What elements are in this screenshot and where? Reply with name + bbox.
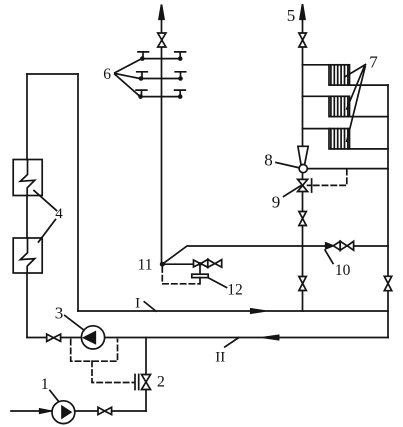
svg-text:II: II — [215, 349, 225, 365]
branch 2 left dot — [139, 76, 144, 81]
svg-text:8: 8 — [264, 150, 273, 169]
heat exchanger 4a — [13, 160, 42, 196]
label 1 leader — [50, 390, 59, 401]
label 7 leaders — [345, 65, 365, 142]
valve 10 check bowtie filled half — [326, 243, 333, 249]
svg-text:10: 10 — [335, 262, 351, 279]
flow arrow on main I — [251, 309, 265, 313]
riser 5 pipe — [302, 19, 304, 311]
branch 1 line — [142, 58, 180, 60]
branch 1 right tee — [175, 52, 186, 59]
svg-text:7: 7 — [369, 53, 378, 72]
return main II — [62, 337, 388, 339]
riser 5 valve — [299, 33, 306, 47]
riser to valve 2 — [145, 338, 147, 412]
branch 3 left tee — [136, 90, 147, 97]
branch 2 line — [141, 78, 181, 80]
radiator 7b — [329, 96, 350, 116]
valve 2 actuator bars — [135, 375, 139, 390]
label II leader — [225, 338, 239, 347]
node 11 junction dot — [160, 262, 165, 267]
heat exchanger 4b — [13, 238, 42, 273]
label 10 leader — [325, 250, 333, 264]
branch 3 line — [141, 96, 181, 98]
branch 3 left dot — [138, 94, 143, 99]
label 4 leader to lower exchanger — [39, 220, 56, 243]
label 12 leader — [208, 278, 226, 288]
dashed interlock around pump 3 — [71, 340, 134, 383]
valve before pump 3 — [47, 334, 61, 341]
device 8 cone — [298, 146, 308, 164]
label 3 leader — [65, 316, 84, 331]
svg-text:4: 4 — [55, 206, 63, 222]
label 8 leader — [276, 163, 299, 168]
wire left loop downcomer — [77, 74, 79, 311]
svg-text:6: 6 — [103, 66, 111, 83]
valve 12 first bowtie — [194, 259, 208, 267]
svg-text:12: 12 — [227, 282, 243, 299]
label 4 leader to upper exchanger — [34, 191, 57, 211]
valve on riser 5 mid — [299, 212, 306, 226]
wire left riser upper segment — [26, 74, 28, 338]
branch 2 right tee — [175, 72, 186, 79]
pump 1 — [52, 401, 75, 424]
svg-text:3: 3 — [55, 303, 64, 322]
valve 12 drain stem — [199, 264, 201, 274]
device 8 circle — [299, 165, 307, 173]
pipe after pump 1 — [75, 410, 98, 412]
svg-text:1: 1 — [41, 376, 49, 393]
valve 12 junction dot — [198, 262, 202, 266]
riser 6 valve — [158, 33, 166, 47]
valve on right header — [384, 276, 391, 290]
dashed control line from valve 9 — [314, 170, 347, 186]
branch 3 right tee — [175, 90, 186, 97]
branch 1 right dot — [178, 56, 183, 61]
dashed control line from node 11 — [162, 267, 199, 284]
radiator 7c — [329, 129, 350, 149]
right return header — [387, 85, 389, 338]
valve 2 bowtie — [142, 375, 151, 390]
branch 2 left tee — [137, 72, 148, 79]
label I leader — [144, 302, 156, 311]
radiator 7c return connection — [350, 148, 389, 150]
bypass line right of valve 10 — [354, 245, 388, 247]
wire top header of left loop — [27, 73, 78, 75]
radiator 7c supply connection — [303, 128, 330, 130]
pipe from device 8 to right header — [307, 168, 388, 170]
radiator 7b supply connection — [303, 95, 330, 97]
svg-text:2: 2 — [157, 374, 165, 391]
svg-text:5: 5 — [287, 6, 296, 25]
valve 10 check bowtie open half — [333, 241, 340, 250]
riser 5 vent arrow — [300, 4, 305, 19]
valve after pump 1 — [98, 407, 112, 414]
radiator 7a supply connection — [303, 64, 330, 66]
supply main I — [78, 310, 388, 312]
pump 3 — [81, 326, 104, 349]
branch 3 right dot — [178, 94, 183, 99]
label 6 leaders — [115, 59, 141, 96]
valve 12 flange plate — [192, 274, 208, 277]
branch 1 left tee — [138, 52, 149, 59]
riser 6 vent arrow — [159, 5, 164, 20]
label 9 leader — [284, 186, 301, 197]
radiator 7a return connection — [350, 84, 389, 86]
pipe from valve to riser 2 — [112, 410, 146, 412]
valve 10 second bowtie — [340, 241, 353, 250]
return main II left segment — [27, 337, 46, 339]
flow arrow on main II — [264, 335, 279, 339]
radiator 7a — [329, 65, 350, 85]
bypass line with node 11 diagonal — [162, 246, 325, 264]
control valve 9 — [298, 179, 312, 192]
makeup water inlet line — [11, 410, 52, 412]
svg-text:9: 9 — [272, 193, 281, 212]
valve 12 second bowtie — [208, 259, 222, 267]
valve on riser 5 low — [299, 277, 306, 291]
svg-text:I: I — [135, 296, 140, 312]
branch 1 left dot — [140, 56, 145, 61]
svg-text:11: 11 — [138, 257, 153, 274]
riser 6 pipe — [161, 19, 163, 264]
branch from node 11 to valve 12 — [162, 263, 193, 265]
inlet flow arrow — [40, 409, 50, 413]
branch 2 right dot — [178, 76, 183, 81]
radiator 7b return connection — [350, 116, 389, 118]
valve 12 stem below plate — [199, 278, 201, 284]
